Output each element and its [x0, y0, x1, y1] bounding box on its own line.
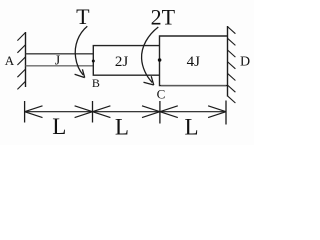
svg-text:C: C: [157, 87, 166, 102]
dimension arrow pointing right into tick C: [142, 106, 160, 118]
svg-text:A: A: [5, 53, 15, 68]
dimension arrow pointing left from tick B: [93, 106, 111, 118]
dimension arrow right end pointing right: [208, 106, 226, 118]
dimension arrow left end pointing left: [25, 106, 43, 118]
wall right fixed support at D: [227, 26, 235, 103]
dimension tick at D: [225, 101, 227, 125]
svg-text:2T: 2T: [151, 4, 176, 29]
dimension arrow pointing left from tick C: [160, 106, 178, 118]
box 4J disk segment: [160, 36, 228, 86]
torque arrow 2T arrowhead: [144, 76, 154, 85]
svg-text:L: L: [115, 115, 129, 140]
wall left fixed support at A: [17, 32, 25, 89]
box 2J disk segment: [93, 46, 159, 76]
svg-text:D: D: [240, 54, 250, 69]
dimension baseline: [25, 111, 226, 113]
torque arrow T arrowhead: [75, 69, 85, 77]
torque arrow T arc: [75, 26, 87, 75]
box 4J bottom line gray overdraw: [161, 85, 226, 87]
shaft segment J top line: [26, 53, 94, 55]
svg-text:T: T: [76, 4, 90, 29]
svg-text:2J: 2J: [115, 54, 129, 70]
svg-text:J: J: [55, 54, 61, 69]
torque arrow 2T arc: [142, 27, 159, 83]
node C junction dot: [158, 58, 162, 62]
dimension tick at A: [24, 101, 26, 123]
svg-text:4J: 4J: [187, 54, 201, 70]
dimension tick at C: [159, 101, 161, 124]
svg-text:B: B: [92, 76, 100, 90]
dimension tick at B: [92, 101, 94, 123]
shaft segment J bottom line: [26, 65, 94, 67]
svg-text:L: L: [52, 114, 66, 139]
node B junction dot: [92, 60, 95, 63]
svg-text:L: L: [184, 115, 198, 140]
dimension arrow pointing right into tick B: [75, 106, 93, 118]
